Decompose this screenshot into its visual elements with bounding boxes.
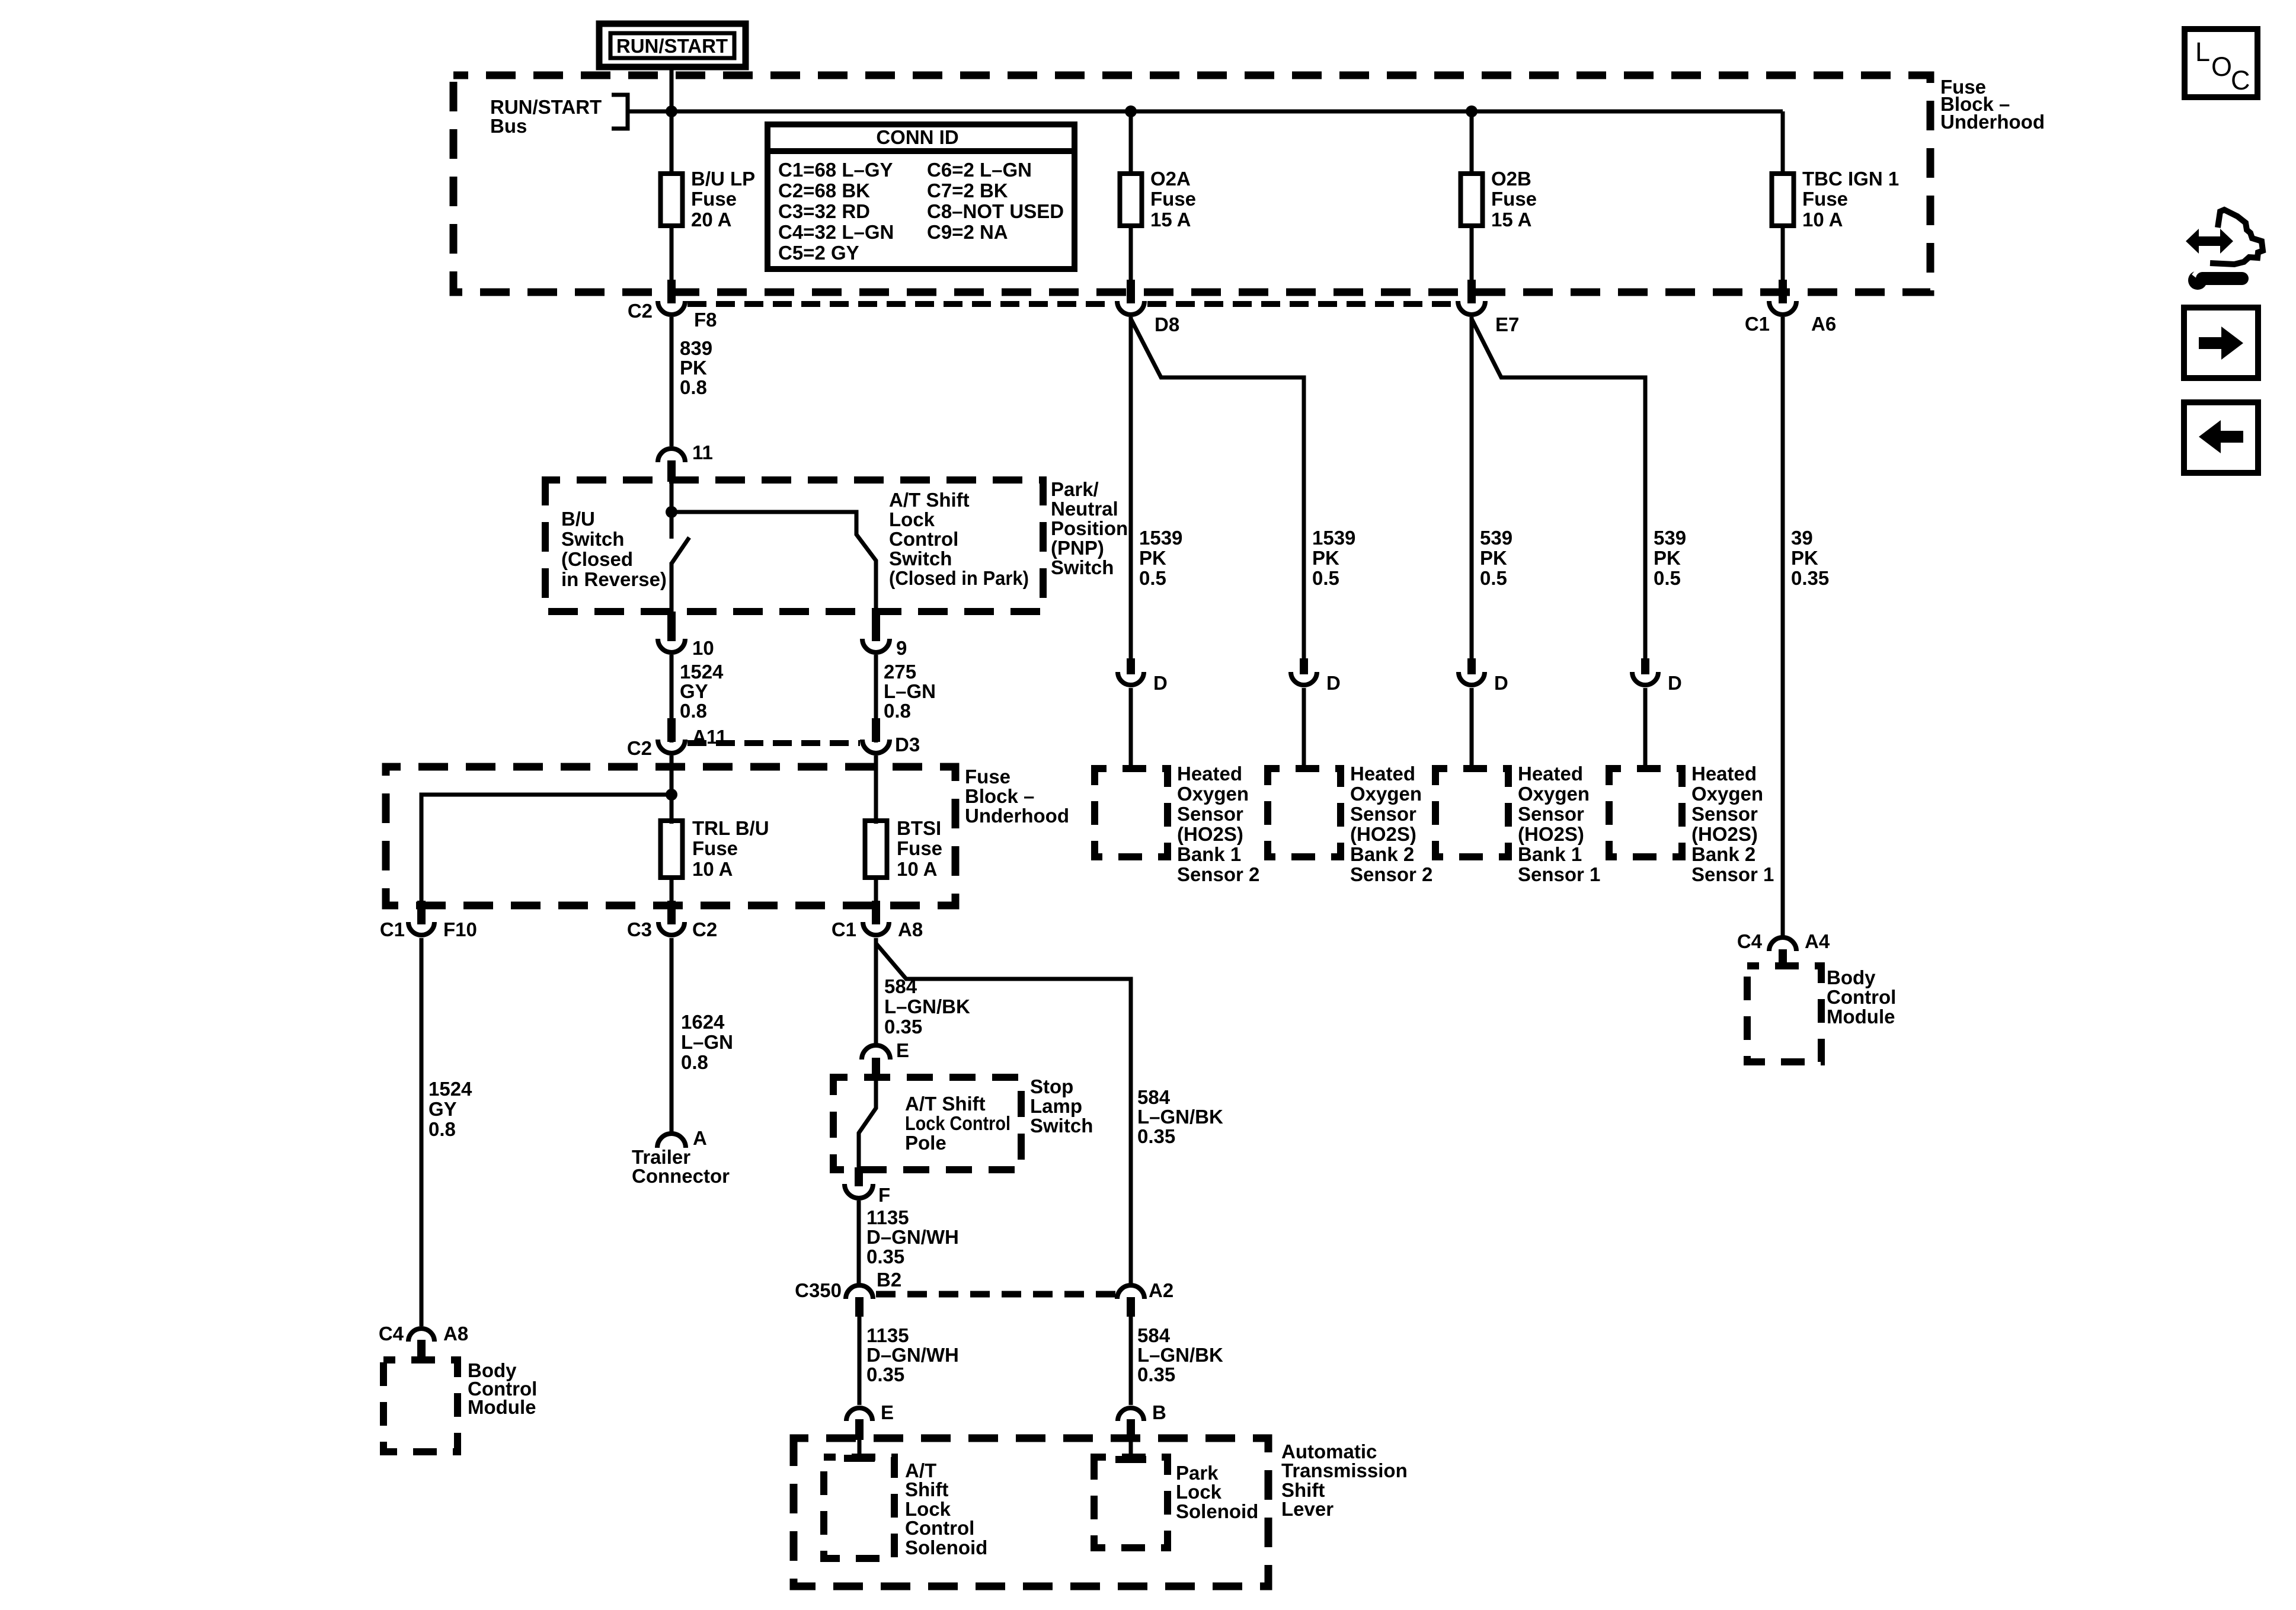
svg-text:Bank 1: Bank 1	[1177, 843, 1241, 865]
connector C350 B2	[846, 1285, 873, 1299]
svg-text:Fuse: Fuse	[691, 188, 737, 210]
svg-text:0.35: 0.35	[866, 1246, 904, 1267]
svg-text:C1: C1	[832, 918, 856, 940]
svg-text:Sensor: Sensor	[1518, 803, 1584, 825]
connector D of HO2S 4	[1641, 658, 1649, 674]
svg-text:Control: Control	[1827, 986, 1896, 1008]
Park Neutral Position PNP Switch dashed box	[545, 480, 1043, 612]
wire 1524 GY 0.8 to BCM left	[420, 938, 424, 1326]
connector C4 A4	[1769, 937, 1796, 951]
wire 584 L-GN/BK 0.35 from A8	[874, 938, 878, 1044]
connector E7	[1467, 280, 1476, 303]
connector B solenoid	[1118, 1408, 1144, 1421]
svg-text:F: F	[878, 1184, 890, 1206]
svg-text:A6: A6	[1811, 313, 1836, 335]
svg-text:15 A: 15 A	[1491, 209, 1531, 231]
wire bus to TBC IGN 1 fuse	[1781, 111, 1785, 176]
svg-text:C2: C2	[692, 918, 717, 940]
svg-text:Module: Module	[1827, 1006, 1895, 1028]
svg-text:L–GN: L–GN	[681, 1031, 733, 1053]
wire D to HO2S box 2	[1302, 688, 1306, 770]
wire 39 PK 0.35 TBC to BCM right	[1781, 317, 1785, 936]
svg-text:C350: C350	[795, 1279, 842, 1301]
fuse O2A 15A	[1120, 174, 1142, 226]
svg-text:D: D	[1153, 672, 1168, 694]
svg-text:0.8: 0.8	[680, 376, 707, 398]
power tag RUN/START	[599, 24, 746, 67]
svg-text:C2=68 BK: C2=68 BK	[778, 180, 870, 201]
bus wire RUN/START	[628, 110, 1783, 114]
fuse block underhood top dashed box	[453, 75, 1930, 292]
svg-text:0.5: 0.5	[1139, 567, 1166, 589]
svg-text:TRL B/U: TRL B/U	[692, 817, 769, 839]
svg-text:Underhood: Underhood	[965, 805, 1069, 827]
junction bus at O2B	[1466, 105, 1478, 117]
svg-text:C4: C4	[379, 1323, 404, 1345]
svg-text:Control: Control	[889, 528, 958, 550]
svg-text:C1=68 L–GY: C1=68 L–GY	[778, 159, 893, 181]
svg-text:10 A: 10 A	[897, 858, 937, 880]
svg-text:B/U: B/U	[561, 508, 595, 530]
svg-text:Sensor: Sensor	[1691, 803, 1758, 825]
svg-text:C2: C2	[628, 300, 653, 322]
fuse O2B 15A	[1461, 174, 1483, 226]
svg-text:C4: C4	[1737, 930, 1763, 952]
wire A11 into fuse block 2	[670, 756, 674, 824]
svg-text:1624: 1624	[681, 1011, 725, 1033]
A/T shift lock control pole switch	[859, 1078, 876, 1169]
svg-text:Fuse: Fuse	[1491, 188, 1537, 210]
svg-text:L: L	[2195, 37, 2210, 67]
branch wire 584 to A2	[876, 943, 1131, 1283]
svg-text:Stop: Stop	[1030, 1076, 1073, 1097]
connector D3	[872, 718, 880, 742]
svg-text:(PNP): (PNP)	[1051, 537, 1104, 559]
wire B into park lock solenoid	[1129, 1440, 1133, 1459]
connector D of HO2S 1	[1127, 658, 1135, 674]
svg-text:Fuse: Fuse	[965, 766, 1011, 788]
svg-text:Switch: Switch	[889, 548, 952, 569]
wire D to HO2S box 3	[1470, 688, 1474, 770]
svg-text:9: 9	[896, 637, 907, 659]
svg-text:(HO2S): (HO2S)	[1518, 823, 1584, 845]
connector 10	[667, 612, 676, 641]
svg-text:Solenoid: Solenoid	[1176, 1500, 1258, 1522]
svg-text:Sensor: Sensor	[1350, 803, 1416, 825]
svg-text:A11: A11	[692, 726, 727, 748]
svg-text:0.35: 0.35	[1137, 1125, 1175, 1147]
branch wire to C1 F10	[421, 795, 671, 903]
svg-text:L–GN/BK: L–GN/BK	[1137, 1106, 1223, 1128]
A/T shift lock control switch closed in park	[671, 512, 876, 613]
svg-text:Control: Control	[905, 1517, 974, 1539]
svg-text:Bank 2: Bank 2	[1691, 843, 1755, 865]
svg-text:39: 39	[1791, 527, 1813, 549]
svg-text:0.5: 0.5	[1480, 567, 1507, 589]
svg-text:(HO2S): (HO2S)	[1177, 823, 1243, 845]
wire E into AT shift lock control solenoid	[858, 1440, 862, 1457]
svg-text:GY: GY	[428, 1098, 457, 1120]
svg-text:in Reverse): in Reverse)	[561, 568, 667, 590]
svg-text:O2B: O2B	[1491, 168, 1531, 190]
automatic transmission shift lever dashed box	[794, 1438, 1268, 1586]
svg-text:A/T Shift: A/T Shift	[905, 1093, 986, 1115]
heated oxygen sensor dashed box 1	[1095, 769, 1168, 857]
svg-text:GY: GY	[680, 680, 708, 702]
svg-text:L–GN/BK: L–GN/BK	[1137, 1344, 1223, 1366]
LOC locator icon box	[2185, 29, 2257, 97]
svg-text:Park/: Park/	[1051, 478, 1099, 500]
svg-text:PK: PK	[1139, 547, 1166, 569]
svg-text:PK: PK	[680, 357, 707, 379]
wire 1524 GY 0.8 upper	[670, 655, 674, 742]
svg-text:0.8: 0.8	[681, 1051, 708, 1073]
svg-text:C1: C1	[380, 918, 405, 940]
svg-text:B/U LP: B/U LP	[691, 168, 755, 190]
svg-text:Fuse: Fuse	[692, 837, 738, 859]
wire D to HO2S box 4	[1643, 688, 1648, 770]
svg-text:D–GN/WH: D–GN/WH	[866, 1344, 959, 1366]
svg-text:B: B	[1152, 1401, 1166, 1423]
fuse B/U LP 20A	[661, 174, 683, 226]
svg-text:PK: PK	[1480, 547, 1507, 569]
dotted connector line C350	[876, 1291, 1115, 1298]
svg-text:1135: 1135	[866, 1324, 909, 1346]
svg-text:C6=2 L–GN: C6=2 L–GN	[927, 159, 1032, 181]
svg-text:C2: C2	[627, 737, 652, 759]
junction in fuse block 2	[666, 789, 677, 801]
svg-text:L–GN/BK: L–GN/BK	[884, 996, 970, 1017]
svg-text:0.35: 0.35	[884, 1016, 922, 1038]
AT shift lock control solenoid dashed box	[824, 1457, 894, 1558]
svg-text:Body: Body	[1827, 966, 1876, 988]
junction bus at O2A	[1125, 105, 1137, 117]
dotted connector line row 1	[687, 301, 1114, 307]
svg-text:O2A: O2A	[1150, 168, 1191, 190]
svg-text:0.35: 0.35	[1137, 1363, 1175, 1385]
connector 11	[658, 449, 685, 462]
svg-text:A8: A8	[443, 1323, 468, 1345]
svg-text:F10: F10	[443, 918, 477, 940]
svg-text:1539: 1539	[1312, 527, 1355, 549]
svg-text:0.8: 0.8	[680, 700, 707, 722]
svg-text:E: E	[896, 1039, 909, 1061]
svg-text:O: O	[2211, 52, 2232, 82]
svg-text:C7=2 BK: C7=2 BK	[927, 180, 1008, 201]
svg-text:0.35: 0.35	[1791, 567, 1829, 589]
wire E7 straight down	[1470, 317, 1474, 660]
fuse BTSI 10A	[865, 821, 887, 878]
svg-text:0.35: 0.35	[866, 1363, 904, 1385]
svg-text:D3: D3	[895, 734, 920, 756]
svg-text:0.5: 0.5	[1312, 567, 1339, 589]
connector E solenoid	[846, 1408, 872, 1421]
connector C2 F8	[667, 280, 676, 303]
svg-text:D: D	[1668, 672, 1682, 694]
fuse TBC IGN 1 10A	[1772, 174, 1794, 226]
wire 1624 L-GN 0.8 trailer	[670, 938, 674, 1132]
wire bus to O2A fuse	[1129, 111, 1133, 176]
svg-text:539: 539	[1480, 527, 1512, 549]
CONN ID table	[768, 124, 1075, 269]
svg-text:D–GN/WH: D–GN/WH	[866, 1226, 959, 1248]
B/U switch closed in reverse	[670, 512, 674, 539]
svg-text:1539: 1539	[1139, 527, 1182, 549]
connector 9	[872, 612, 880, 641]
wire TBC fuse to C1 A6	[1781, 226, 1785, 282]
wire 584 L-GN/BK 0.35 lower	[1129, 1317, 1133, 1405]
svg-text:Fuse: Fuse	[897, 837, 942, 859]
svg-text:C3: C3	[627, 918, 652, 940]
wire D to HO2S box 1	[1129, 688, 1133, 770]
svg-text:Heated: Heated	[1691, 763, 1757, 785]
wire BTSI fuse to C1 A8	[874, 878, 878, 903]
fuse TRL B/U 10A	[661, 821, 683, 878]
svg-text:BTSI: BTSI	[897, 817, 941, 839]
svg-text:10 A: 10 A	[692, 858, 733, 880]
wire D3 to BTSI fuse	[874, 756, 878, 824]
svg-text:Lock: Lock	[889, 508, 935, 530]
park lock solenoid dashed box	[1094, 1457, 1168, 1548]
connector D of HO2S 2	[1300, 658, 1308, 674]
svg-text:Bank 2: Bank 2	[1350, 843, 1414, 865]
svg-text:C4=32 L–GN: C4=32 L–GN	[778, 221, 894, 243]
wire 1135 D-GN/WH 0.35 lower	[858, 1317, 862, 1405]
body control module right dashed box	[1747, 966, 1821, 1062]
svg-text:1524: 1524	[428, 1078, 472, 1100]
svg-text:Oxygen: Oxygen	[1350, 783, 1422, 805]
svg-text:PK: PK	[1312, 547, 1339, 569]
svg-text:Heated: Heated	[1177, 763, 1242, 785]
svg-text:C: C	[2231, 65, 2250, 95]
svg-text:TBC IGN 1: TBC IGN 1	[1802, 168, 1899, 190]
svg-text:A4: A4	[1805, 930, 1830, 952]
wire E7 diagonal branch	[1472, 319, 1645, 660]
wire 1135 D-GN/WH 0.35 upper	[857, 1201, 861, 1283]
svg-text:20 A: 20 A	[691, 209, 731, 231]
svg-text:Solenoid: Solenoid	[905, 1537, 987, 1558]
svg-text:Oxygen: Oxygen	[1691, 783, 1763, 805]
svg-text:10 A: 10 A	[1802, 209, 1843, 231]
svg-text:C1: C1	[1745, 313, 1770, 335]
dotted connector line row 2	[687, 740, 860, 746]
svg-text:(Closed: (Closed	[561, 548, 633, 570]
svg-text:0.8: 0.8	[428, 1118, 456, 1140]
connector F	[855, 1167, 863, 1186]
body control module left dashed box	[383, 1360, 458, 1452]
wire bus to O2B fuse	[1470, 111, 1474, 176]
connector A2	[1117, 1285, 1144, 1299]
svg-text:Switch: Switch	[561, 528, 624, 550]
back arrow icon box	[2184, 402, 2258, 473]
connector C1 F10	[417, 901, 426, 924]
svg-text:D: D	[1494, 672, 1508, 694]
svg-text:Switch: Switch	[1051, 556, 1114, 578]
svg-text:Lock: Lock	[1176, 1481, 1222, 1503]
heated oxygen sensor dashed box 3	[1435, 769, 1508, 857]
wire D8 diagonal branch	[1131, 319, 1304, 660]
svg-text:Fuse: Fuse	[1802, 188, 1848, 210]
junction node in PNP switch	[666, 506, 677, 518]
svg-text:Underhood: Underhood	[1940, 111, 2045, 133]
heated oxygen sensor dashed box 4	[1609, 769, 1682, 857]
svg-text:Sensor: Sensor	[1177, 803, 1243, 825]
wire 275 L-GN 0.8	[874, 655, 878, 742]
svg-text:Bank 1: Bank 1	[1518, 843, 1582, 865]
connector A trailer	[657, 1134, 686, 1148]
svg-text:275: 275	[884, 661, 916, 683]
svg-text:0.8: 0.8	[884, 700, 911, 722]
svg-text:E7: E7	[1495, 313, 1519, 335]
svg-text:Transmission: Transmission	[1281, 1459, 1408, 1481]
svg-text:D8: D8	[1155, 313, 1179, 335]
svg-text:C5=2 GY: C5=2 GY	[778, 242, 859, 264]
svg-text:PK: PK	[1654, 547, 1681, 569]
svg-text:C3=32 RD: C3=32 RD	[778, 200, 870, 222]
connector E stop lamp switch	[862, 1045, 890, 1060]
svg-text:Switch: Switch	[1030, 1115, 1093, 1137]
svg-text:A2: A2	[1149, 1279, 1173, 1301]
svg-text:(Closed in Park): (Closed in Park)	[889, 567, 1029, 589]
wire B/U LP fuse to C2 F8	[670, 226, 674, 282]
connector C4 A8 left BCM	[408, 1329, 434, 1342]
svg-text:839: 839	[680, 337, 712, 359]
svg-text:(HO2S): (HO2S)	[1691, 823, 1758, 845]
svg-text:Sensor 2: Sensor 2	[1350, 863, 1432, 885]
svg-text:Sensor 1: Sensor 1	[1518, 863, 1600, 885]
wire 11 into PNP switch	[670, 482, 674, 512]
svg-text:E: E	[881, 1401, 894, 1423]
svg-text:15 A: 15 A	[1150, 209, 1191, 231]
svg-text:A/T Shift: A/T Shift	[889, 489, 970, 511]
fuse block underhood lower dashed box	[386, 767, 955, 905]
svg-text:C9=2 NA: C9=2 NA	[927, 221, 1008, 243]
svg-text:Lock Control: Lock Control	[905, 1112, 1011, 1134]
wire TRL B/U fuse to C3 C2	[670, 878, 674, 903]
svg-text:Neutral: Neutral	[1051, 498, 1118, 520]
svg-text:1524: 1524	[680, 661, 724, 683]
svg-text:L–GN: L–GN	[884, 680, 936, 702]
wire RUN/START tag to B/U LP fuse	[670, 67, 674, 176]
connector C1 A6	[1779, 280, 1787, 303]
svg-text:Position: Position	[1051, 517, 1128, 539]
svg-text:Pole: Pole	[905, 1132, 946, 1154]
svg-text:539: 539	[1654, 527, 1686, 549]
svg-text:1135: 1135	[866, 1206, 909, 1228]
svg-text:584: 584	[1137, 1324, 1171, 1346]
connector D8	[1127, 280, 1135, 303]
svg-text:D: D	[1326, 672, 1341, 694]
connector C3 C2	[667, 901, 676, 924]
svg-text:Sensor 2: Sensor 2	[1177, 863, 1259, 885]
svg-text:584: 584	[1137, 1086, 1171, 1108]
svg-text:Oxygen: Oxygen	[1518, 783, 1590, 805]
connector D of HO2S 3	[1467, 658, 1476, 674]
svg-text:Heated: Heated	[1518, 763, 1583, 785]
svg-text:B2: B2	[877, 1269, 901, 1291]
svg-text:Block –: Block –	[965, 785, 1034, 807]
heated oxygen sensor dashed box 2	[1268, 769, 1341, 857]
svg-text:Shift: Shift	[905, 1478, 948, 1500]
svg-text:Lamp: Lamp	[1030, 1095, 1082, 1117]
junction bus at B/U LP	[666, 105, 677, 117]
svg-text:Bus: Bus	[490, 115, 527, 137]
stop lamp switch dashed box	[833, 1077, 1021, 1170]
svg-text:Lever: Lever	[1281, 1498, 1334, 1520]
svg-text:0.5: 0.5	[1654, 567, 1681, 589]
svg-text:CONN ID: CONN ID	[876, 126, 958, 148]
svg-text:10: 10	[692, 637, 714, 659]
svg-text:C8–NOT USED: C8–NOT USED	[927, 200, 1064, 222]
forward arrow icon box	[2184, 308, 2258, 378]
svg-text:RUN/START: RUN/START	[616, 35, 728, 57]
svg-text:Sensor 1: Sensor 1	[1691, 863, 1774, 885]
svg-text:Module: Module	[468, 1396, 536, 1418]
svg-text:Oxygen: Oxygen	[1177, 783, 1249, 805]
connector C1 A8	[872, 901, 880, 924]
component view wrench icon	[2186, 210, 2263, 290]
svg-text:Connector: Connector	[632, 1165, 730, 1187]
connector C2 A11	[667, 718, 676, 742]
wire 839 PK 0.8	[670, 317, 674, 446]
svg-text:11: 11	[692, 441, 713, 463]
svg-text:PK: PK	[1791, 547, 1818, 569]
svg-text:Fuse: Fuse	[1150, 188, 1196, 210]
svg-text:F8: F8	[694, 309, 717, 331]
svg-text:A8: A8	[898, 918, 923, 940]
svg-text:Heated: Heated	[1350, 763, 1415, 785]
svg-text:(HO2S): (HO2S)	[1350, 823, 1416, 845]
wire D8 straight down	[1129, 317, 1133, 660]
wire O2B fuse to E7	[1470, 226, 1474, 282]
svg-text:A: A	[693, 1127, 707, 1149]
wire O2A fuse to D8	[1129, 226, 1133, 282]
